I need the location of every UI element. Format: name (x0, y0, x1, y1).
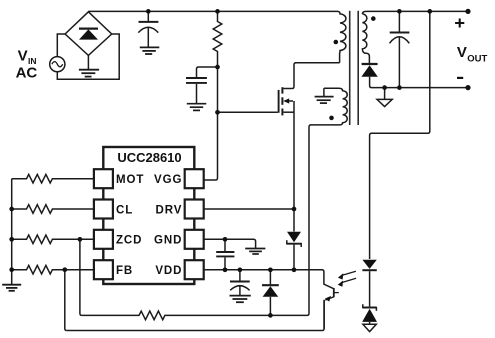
svg-text:VDD: VDD (155, 265, 182, 277)
svg-text:UCC28610: UCC28610 (117, 150, 181, 165)
svg-text:V: V (18, 47, 28, 64)
svg-text:GND: GND (154, 235, 182, 247)
svg-text:VGG: VGG (154, 174, 182, 186)
svg-text:ZCD: ZCD (116, 235, 142, 247)
svg-text:AC: AC (16, 65, 38, 82)
svg-text:FB: FB (116, 265, 133, 277)
svg-text:OUT: OUT (467, 54, 487, 65)
svg-text:V: V (457, 44, 467, 61)
svg-text:DRV: DRV (156, 204, 183, 216)
svg-text:CL: CL (116, 204, 133, 216)
svg-text:MOT: MOT (116, 174, 144, 186)
